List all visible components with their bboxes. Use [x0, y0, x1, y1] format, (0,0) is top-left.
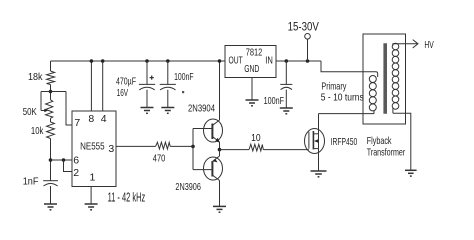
wire output to gate resistor	[220, 149, 250, 151]
ground below pin 1	[85, 204, 98, 210]
svg-text:8: 8	[88, 113, 94, 125]
svg-text:HV: HV	[424, 39, 433, 51]
wire pin 7 branch	[66, 92, 72, 126]
wire Q1 emitter to output node	[219, 142, 221, 150]
node emitter output junction	[218, 148, 222, 152]
wire Q1 collector to rail	[219, 61, 221, 120]
resistor R 10k	[47, 122, 55, 139]
wire cap100n2 top lead	[285, 61, 287, 84]
transistor Q2 emitter diagonal	[212, 156, 219, 162]
regulator U2 7812 box	[225, 46, 276, 78]
wire secondary bottom stub	[392, 109, 394, 114]
svg-text:1nF: 1nF	[23, 175, 39, 187]
wire supply terminal down	[307, 39, 309, 61]
capacitor C 100nF plate bottom curved	[160, 87, 175, 90]
svg-text:100nF: 100nF	[174, 71, 194, 83]
wire primary bottom to drain	[319, 113, 375, 115]
ground below 7812	[246, 100, 259, 106]
svg-text:7: 7	[74, 117, 80, 129]
transistor Q3 body diode arrow lead	[315, 140, 319, 142]
svg-text:NE555: NE555	[80, 140, 105, 152]
supply terminal 15-30V circle	[305, 34, 311, 40]
wire wiper branch down	[40, 92, 42, 111]
wire VCC rail top	[51, 60, 226, 62]
svg-text:7812: 7812	[246, 46, 263, 58]
wire pin 4 to rail	[102, 61, 104, 111]
node pin4 rail junction	[101, 59, 105, 63]
capacitor C 470uF plus sign	[150, 76, 154, 80]
transformer primary winding	[369, 76, 376, 111]
HV arrowhead open	[413, 40, 418, 48]
wire junction horizontal	[41, 91, 66, 93]
transistor Q3 IRFP450 circle	[305, 129, 325, 154]
capacitor C 1nF plate top	[43, 180, 58, 182]
potentiometer 50K wiper arrowhead	[44, 109, 48, 113]
transistor Q1 emitter diagonal	[212, 137, 219, 143]
wire Q2 emitter from output node	[219, 150, 221, 156]
node supply junction	[306, 59, 310, 63]
wire cap100n1 bottom lead	[167, 90, 169, 108]
transistor Q1 2N3904 circle	[204, 119, 223, 142]
node pin8 rail junction	[90, 59, 94, 63]
ground below IRFP450	[311, 171, 327, 177]
capacitor C 100nF input plate bottom curved	[281, 87, 292, 89]
transistor Q3 arrowhead	[314, 139, 318, 143]
resistor R 470	[156, 142, 171, 149]
svg-text:2: 2	[73, 167, 79, 179]
ground below 100nF	[161, 108, 174, 114]
wire 10 to MOSFET gate	[263, 149, 309, 151]
wire Q2 base lead	[193, 169, 212, 171]
wire primary bottom stub	[373, 111, 375, 114]
node 18k/50K junction	[49, 90, 53, 94]
wire cap100n1 top lead	[167, 61, 169, 84]
wire rail corner to primary top	[321, 61, 378, 77]
node Q1 collector rail junction	[218, 59, 222, 63]
capacitor C 100nF plate top	[160, 83, 176, 85]
op-amp U1 NE555 box	[72, 111, 116, 187]
svg-text:IN: IN	[265, 54, 273, 66]
svg-text:3: 3	[108, 143, 114, 155]
wire 18k bottom lead	[50, 85, 52, 100]
wire 10k to 1nF	[50, 139, 52, 181]
wire pin 2 branch	[64, 160, 73, 172]
ground below 470uF	[141, 108, 154, 114]
transistor Q3 source tap	[313, 148, 318, 150]
svg-text:Transformer: Transformer	[367, 147, 406, 159]
wire pin 6 stub	[51, 159, 73, 161]
svg-text:18k: 18k	[28, 71, 43, 83]
node pin6 junction	[49, 158, 53, 162]
capacitor C 470uF plate top	[139, 83, 155, 85]
transformer T1 box	[363, 34, 406, 124]
node base junction	[191, 145, 195, 149]
ground below input 100nF	[280, 108, 293, 114]
transistor Q1 collector diagonal	[212, 120, 219, 126]
node pin2 branch junction	[62, 158, 66, 162]
wire drain vertical	[318, 114, 320, 134]
transistor Q2 2N3906 circle	[204, 157, 223, 180]
wire cap470 top lead	[146, 61, 148, 84]
svg-text:2N3906: 2N3906	[175, 181, 201, 193]
transformer core bar	[383, 43, 387, 114]
resistor R 18k	[47, 71, 55, 85]
node cap100n1 rail junction	[166, 59, 170, 63]
resistor R 10	[249, 144, 263, 151]
capacitor C 470uF plate bottom curved	[139, 87, 154, 90]
potentiometer 50K body	[46, 100, 53, 119]
svg-text:50K: 50K	[23, 106, 37, 118]
wire cap100n2 bottom lead	[285, 90, 287, 108]
wire 18k top lead	[50, 61, 52, 71]
speck near 100nF	[182, 91, 184, 93]
wire 1nF to ground	[50, 186, 52, 204]
node cap470 rail junction	[145, 59, 149, 63]
wire 470 to bases	[170, 145, 193, 147]
transistor Q2 emitter arrowhead	[213, 159, 218, 163]
svg-text:4: 4	[101, 113, 107, 125]
ground below secondary	[405, 170, 417, 176]
wire secondary bottom to ground	[393, 113, 411, 170]
wire Q1 base lead	[193, 128, 212, 130]
svg-text:15-30V: 15-30V	[288, 21, 320, 33]
transistor Q3 drain tap	[313, 133, 318, 135]
wire wiper arrow lead	[41, 110, 45, 112]
svg-text:470µF: 470µF	[116, 76, 136, 88]
svg-text:10: 10	[251, 132, 261, 144]
wire pin 8 to rail	[90, 61, 92, 111]
wire pot to 10k	[50, 118, 52, 122]
transformer secondary winding	[392, 43, 399, 109]
svg-text:100nF: 100nF	[264, 95, 284, 107]
svg-text:1: 1	[90, 172, 96, 184]
svg-text:2N3904: 2N3904	[188, 103, 215, 115]
svg-text:Flyback: Flyback	[367, 135, 392, 147]
svg-text:6: 6	[73, 155, 79, 167]
wire HV output	[393, 44, 418, 46]
ground below Q2	[213, 206, 226, 212]
wire pin 1 to ground	[90, 187, 92, 205]
wire pin 3 output	[116, 145, 156, 147]
capacitor C 1nF plate bottom curved	[44, 184, 58, 187]
wire base vertical	[192, 129, 194, 170]
wire 7812 GND lead	[251, 78, 253, 101]
wire 7812 IN rail	[276, 60, 321, 62]
ground below 1nF	[44, 204, 57, 210]
wire Q2 collector to ground	[219, 181, 221, 207]
transistor Q2 collector diagonal	[212, 175, 219, 181]
transistor Q3 drain-source vertical	[318, 134, 320, 149]
transistor Q1 emitter arrowhead	[215, 138, 220, 143]
svg-text:5 - 10 turns: 5 - 10 turns	[321, 91, 364, 103]
wire cap470 bottom lead	[146, 90, 148, 108]
svg-text:OUT: OUT	[229, 54, 244, 66]
svg-text:470: 470	[153, 153, 166, 165]
capacitor C 100nF input plate top	[280, 83, 292, 85]
transistor Q3 gate bar	[308, 132, 310, 149]
transistor Q1 base bar	[211, 124, 213, 140]
svg-text:16V: 16V	[117, 87, 129, 99]
transistor Q3 channel bar	[312, 131, 314, 149]
svg-text:11 - 42 kHz: 11 - 42 kHz	[108, 190, 146, 205]
svg-text:10k: 10k	[31, 125, 44, 137]
svg-text:IRFP450: IRFP450	[331, 136, 358, 148]
svg-text:GND: GND	[244, 63, 259, 75]
wire source to ground	[318, 149, 320, 171]
transistor Q2 base bar	[211, 161, 213, 177]
node cap100n2 junction	[285, 59, 289, 63]
